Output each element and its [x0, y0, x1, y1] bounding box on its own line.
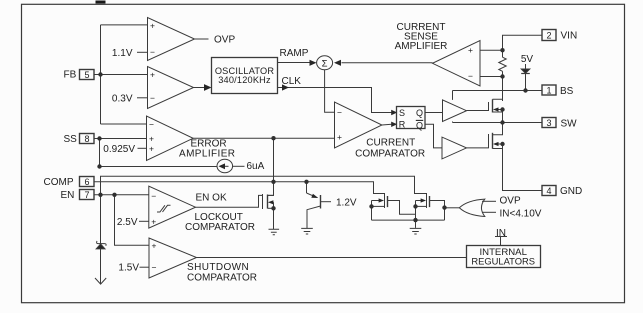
svg-text:0.3V: 0.3V [112, 93, 133, 104]
ground [269, 229, 280, 235]
wire OVP output [195, 38, 209, 40]
driver upper [443, 100, 467, 122]
op-amp current sense amplifier [433, 41, 481, 87]
wire CSA minus input [480, 76, 503, 78]
pin COMP 6 [80, 177, 95, 187]
transistor M_LS low side [488, 134, 490, 148]
wire EN to lockout [94, 194, 149, 196]
svg-text:GND: GND [560, 186, 582, 197]
wire CSA plus input [480, 49, 503, 51]
wire BS line [453, 90, 543, 92]
OR gate OVP [459, 199, 485, 216]
node BS diode [523, 88, 527, 92]
svg-text:R: R [399, 120, 406, 130]
svg-text:BS: BS [560, 86, 574, 97]
svg-text:5V: 5V [521, 54, 534, 65]
svg-text:IN<4.10V: IN<4.10V [500, 208, 542, 219]
svg-text:2.5V: 2.5V [117, 217, 138, 228]
transistor M2 EN OK pulldown [262, 194, 264, 209]
svg-text:EN: EN [61, 190, 75, 201]
node EN a [98, 193, 102, 197]
svg-text:+: + [468, 45, 473, 55]
svg-text:6uA: 6uA [247, 161, 265, 172]
oscillator block [212, 58, 278, 94]
svg-text:2: 2 [546, 31, 551, 41]
diode 5V bootstrap [525, 64, 527, 69]
svg-text:REGULATORS: REGULATORS [471, 255, 535, 266]
svg-text:RAMP: RAMP [280, 48, 309, 59]
svg-text:+: + [149, 134, 154, 144]
svg-text:CURRENT: CURRENT [366, 138, 415, 149]
wire 1.5V dash [140, 266, 150, 268]
node M_LS body [500, 142, 504, 146]
wire IN stub [495, 237, 507, 246]
wire driver to SW [452, 122, 454, 123]
pin VIN 2 [542, 30, 556, 41]
arrow RAMP into sum [310, 60, 317, 66]
node ground rail [413, 218, 417, 222]
wire Q to driver [425, 112, 443, 114]
wire summing junction output [325, 70, 335, 112]
svg-text:−: − [152, 262, 157, 272]
svg-text:COMPARATOR: COMPARATOR [355, 149, 425, 160]
wire FB to error amp minus [101, 123, 147, 125]
svg-text:COMPARATOR: COMPARATOR [187, 273, 257, 284]
zener diode [96, 244, 105, 249]
wire CSA output to summing junction [342, 62, 433, 64]
svg-text:COMPARATOR: COMPARATOR [185, 222, 255, 233]
summing junction [317, 56, 333, 70]
node EN b [112, 193, 116, 197]
svg-text:7: 7 [84, 190, 89, 200]
svg-text:Σ: Σ [322, 58, 328, 69]
svg-text:IN: IN [496, 228, 506, 239]
svg-text:SW: SW [561, 118, 578, 129]
wire FB vertical bus [100, 25, 102, 124]
transistor M_HS high side [488, 102, 490, 111]
wire RAMP [278, 62, 310, 64]
current source 6uA [217, 159, 233, 173]
wire VIN net [503, 35, 543, 57]
pin SW 3 [542, 118, 556, 128]
svg-text:SHUTDOWN: SHUTDOWN [187, 262, 249, 273]
svg-text:AMPLIFIER: AMPLIFIER [395, 41, 448, 52]
wire OVP input [482, 200, 496, 202]
wire R input [382, 123, 392, 126]
op-amp input signs [149, 21, 473, 273]
wire OR output [445, 207, 460, 209]
transistor M3 [384, 193, 386, 208]
wire BS bias to driver [452, 91, 454, 100]
wire SS to error amp [94, 138, 147, 140]
svg-text:+: + [151, 216, 156, 226]
svg-text:0.925V: 0.925V [103, 144, 135, 155]
wire 1.1V dash [137, 51, 148, 53]
svg-text:+: + [152, 241, 157, 251]
svg-text:−: − [149, 120, 154, 130]
svg-text:1.5V: 1.5V [118, 263, 139, 274]
node VIN sense top [500, 48, 504, 52]
pin GND 4 [542, 186, 556, 196]
svg-text:+: + [150, 21, 155, 31]
pin FB 5 [80, 70, 95, 80]
op-amp OVP comparator [148, 18, 195, 61]
transistor Q1 1.2V clamp [306, 182, 308, 193]
node COMP a [271, 180, 275, 184]
node VIN sense bottom [500, 74, 504, 78]
svg-text:+: + [149, 144, 154, 154]
wire EN up branch [101, 176, 427, 195]
wire driver to M_HS gate [467, 110, 489, 112]
wire ground rail [372, 219, 445, 221]
top cut-off glyph [96, 1, 106, 4]
wire FB to OVP comparator [101, 24, 148, 26]
node M4 source [413, 204, 417, 208]
op-amp current comparator [335, 102, 382, 148]
svg-text:1.2V: 1.2V [336, 198, 357, 209]
svg-text:Q: Q [416, 120, 423, 130]
svg-text:+: + [150, 70, 155, 80]
ground [301, 228, 313, 234]
wire comparator to oscillator [194, 87, 205, 89]
svg-text:−: − [150, 93, 155, 103]
arrow CSA into sum [334, 60, 341, 66]
node OR output [442, 205, 446, 209]
wire 0.925V dash [138, 147, 147, 149]
svg-text:EN OK: EN OK [196, 192, 227, 203]
wire SS to 6uA [100, 139, 218, 167]
resistor [499, 57, 506, 71]
latch SR [397, 107, 426, 129]
svg-text:OVP: OVP [500, 195, 521, 206]
substrate arrow [95, 278, 106, 284]
svg-text:4: 4 [546, 186, 551, 196]
node error amp output [271, 136, 275, 140]
op-amp shutdown comparator [149, 238, 197, 278]
wire EN down branch to shutdown [115, 195, 150, 246]
svg-text:AMPLIFIER: AMPLIFIER [179, 149, 235, 160]
node M_HS body [500, 107, 504, 111]
op-amp lockout comparator [149, 186, 196, 228]
wire FB to node [94, 74, 148, 76]
wire 0.3V dash [137, 97, 148, 99]
node M3 source [369, 204, 373, 208]
wire Qbar to driver [425, 124, 442, 148]
svg-text:−: − [468, 71, 473, 81]
wire CLK [278, 88, 393, 113]
node 6uA corner [97, 164, 101, 168]
wire IN 4.10V input [482, 211, 496, 213]
hysteresis symbol [157, 205, 171, 212]
node SW [500, 120, 504, 124]
svg-text:OVP: OVP [214, 34, 235, 45]
op-amp oscillator comparator [148, 67, 194, 109]
svg-text:COMP: COMP [44, 177, 74, 188]
wire lockout output EN OK [196, 195, 263, 207]
wire EN zener branch [100, 195, 102, 284]
arrow comparator to oscillator [204, 84, 212, 91]
wire SW line [453, 122, 543, 124]
svg-text:340/120KHz: 340/120KHz [218, 75, 271, 85]
svg-text:+: + [337, 132, 342, 142]
svg-text:−: − [151, 191, 156, 201]
svg-text:Q: Q [416, 108, 423, 118]
svg-text:−: − [337, 107, 342, 117]
svg-text:1.1V: 1.1V [112, 48, 133, 59]
wire shutdown output to regulators [197, 257, 467, 259]
arrow 6uA current source [219, 163, 226, 169]
svg-text:FB: FB [64, 70, 77, 81]
arrow CLK [282, 84, 289, 90]
latch Qbar overbar [416, 119, 423, 121]
latch S input arrow [391, 110, 397, 115]
wire error amp output to current comparator [193, 137, 334, 139]
node COMP b [304, 180, 308, 184]
svg-text:VIN: VIN [561, 31, 578, 42]
node FB [98, 72, 102, 76]
wire driver to M_LS gate [467, 147, 489, 149]
ground [410, 228, 422, 234]
svg-text:5: 5 [84, 70, 89, 80]
internal regulators block [467, 246, 541, 268]
svg-text:SS: SS [64, 134, 78, 145]
wire error amp output to COMP [267, 138, 273, 195]
svg-text:CLK: CLK [282, 76, 302, 87]
pin EN 7 [80, 190, 95, 200]
node SS [97, 136, 101, 140]
svg-text:S: S [399, 108, 405, 118]
node M2 source [271, 206, 275, 210]
svg-text:8: 8 [84, 134, 89, 144]
svg-text:1: 1 [546, 86, 551, 96]
op-amp error amplifier [147, 116, 194, 161]
transistor M4 [426, 193, 428, 208]
svg-text:−: − [150, 47, 155, 57]
wire COMP line [94, 182, 385, 194]
pin SS 8 [80, 134, 95, 144]
driver lower [442, 137, 467, 159]
pin BS 1 [542, 85, 556, 95]
wire 2.5V dash [139, 220, 149, 222]
svg-text:6: 6 [84, 177, 89, 187]
svg-text:3: 3 [546, 118, 551, 128]
